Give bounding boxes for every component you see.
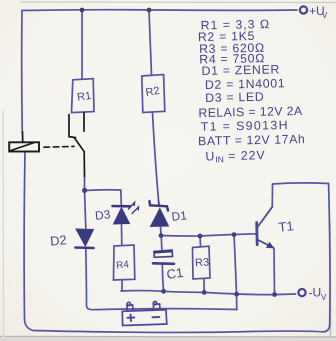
svg-text:R1: R1 bbox=[76, 90, 92, 104]
svg-text:BATT = 12V 17Ah: BATT = 12V 17Ah bbox=[198, 132, 306, 148]
svg-text:R4: R4 bbox=[116, 259, 130, 271]
svg-text:D1: D1 bbox=[171, 208, 188, 224]
svg-text:T1: T1 bbox=[278, 218, 295, 235]
svg-text:D3 = LED: D3 = LED bbox=[205, 90, 265, 105]
svg-text:V: V bbox=[321, 293, 327, 302]
svg-text:C1: C1 bbox=[166, 265, 185, 282]
svg-text:R2: R2 bbox=[145, 85, 161, 99]
svg-text:T1 = S9013H: T1 = S9013H bbox=[201, 118, 289, 134]
svg-text:-U: -U bbox=[309, 286, 322, 300]
svg-text:D2: D2 bbox=[49, 232, 67, 249]
svg-text:D3: D3 bbox=[94, 207, 111, 223]
svg-text:UIN = 22V: UIN = 22V bbox=[205, 148, 266, 164]
svg-text:R3: R3 bbox=[195, 256, 210, 269]
svg-text:V: V bbox=[322, 11, 328, 20]
